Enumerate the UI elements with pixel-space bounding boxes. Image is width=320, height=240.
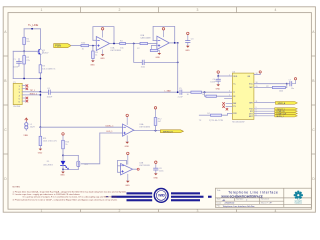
wire main run long xyxy=(51,91,178,93)
svg-text:Sheet ? of ?: Sheet ? of ? xyxy=(261,201,273,204)
node base junction xyxy=(23,50,25,52)
ground R6 xyxy=(158,50,162,55)
wire loop top xyxy=(63,154,78,156)
port PGIN xyxy=(54,44,71,48)
capacitor C1 xyxy=(17,58,22,66)
connector P1 PHONE xyxy=(13,83,22,104)
svg-text:GND: GND xyxy=(90,64,95,66)
wire R7 to IC xyxy=(202,91,233,93)
svg-text:100nF: 100nF xyxy=(210,82,216,84)
svg-text:GND: GND xyxy=(156,57,161,59)
resistor R12 pull-up xyxy=(154,118,157,126)
LED D1 xyxy=(61,161,69,170)
capacitor C6 decoupling xyxy=(217,76,219,79)
wire branch drop xyxy=(205,92,206,96)
svg-text:TIP_1: TIP_1 xyxy=(30,90,36,92)
node main run junction xyxy=(177,91,179,93)
svg-text:4: 4 xyxy=(275,8,277,12)
wire C7 to power xyxy=(292,80,295,84)
wire minus stub U2A xyxy=(153,40,157,42)
wire RING xyxy=(22,94,40,96)
logo bars xyxy=(106,192,212,201)
svg-text:RXI: RXI xyxy=(233,113,236,115)
op-amp U4A xyxy=(123,123,151,136)
wire left rail mid xyxy=(23,45,25,56)
wire stub pin xyxy=(225,98,233,100)
capacitor C5 series xyxy=(180,90,182,94)
ground R11 xyxy=(39,146,43,151)
port DTO xyxy=(275,112,298,114)
svg-text:10k 1/16W 1%: 10k 1/16W 1% xyxy=(42,68,55,70)
svg-text:3: 3 xyxy=(19,92,20,94)
node RING junction xyxy=(40,94,42,96)
svg-text:2/04/2010: 2/04/2010 xyxy=(225,203,236,205)
node cap rail junction xyxy=(177,62,179,64)
ground U4A xyxy=(125,136,129,144)
resistor R13 xyxy=(62,140,65,149)
svg-text:C7: C7 xyxy=(289,80,291,82)
svg-text:GND: GND xyxy=(125,146,130,148)
wire MIC out xyxy=(254,87,273,89)
op-amp U2A xyxy=(157,36,169,49)
port SPK xyxy=(276,102,298,105)
power port C7 xyxy=(294,78,296,80)
wire cap to output rail xyxy=(145,61,178,63)
wire output drop rail xyxy=(177,43,179,92)
svg-text:BC807: BC807 xyxy=(42,52,49,54)
node U2A out junction xyxy=(174,42,176,44)
svg-text:100n: 100n xyxy=(159,171,163,173)
wire R5 to U2A minus xyxy=(148,43,157,45)
resistor R7 xyxy=(191,91,202,93)
svg-text:16: 16 xyxy=(187,94,189,96)
wire feedback U1A xyxy=(93,27,114,44)
node TL_LINE junction xyxy=(31,28,33,30)
svg-text:5: 5 xyxy=(19,98,20,100)
wire U4A out xyxy=(134,130,161,132)
port SPKROUT xyxy=(160,130,183,133)
node plus input junction xyxy=(92,45,94,47)
wire C5 to R7 xyxy=(183,91,191,93)
wire TIP xyxy=(22,91,40,93)
resistor R4 xyxy=(120,42,126,44)
svg-text:Date:: Date: xyxy=(217,201,222,204)
node TIP junction xyxy=(40,91,42,93)
svg-text:SPKROUT: SPKROUT xyxy=(163,131,173,133)
wire loop bottom xyxy=(63,168,78,170)
svg-text:GND: GND xyxy=(38,153,43,155)
svg-text:File:: File: xyxy=(217,206,221,208)
resistor R40 xyxy=(81,45,89,47)
wire emitter rail xyxy=(39,54,41,128)
wire feedback cap branch xyxy=(134,44,142,63)
svg-text:3: 3 xyxy=(197,8,199,12)
svg-text:100k: 100k xyxy=(279,90,283,92)
node VCC junction xyxy=(286,83,288,85)
pin numbers xyxy=(229,73,258,117)
svg-text:1k: 1k xyxy=(65,144,67,146)
svg-text:TL_LINE: TL_LINE xyxy=(28,23,39,27)
svg-text:GND: GND xyxy=(185,50,190,52)
node tie junction xyxy=(23,78,25,80)
svg-text:LM7301IM5: LM7301IM5 xyxy=(110,50,121,52)
company circle logo xyxy=(154,189,168,203)
port MUT xyxy=(275,115,298,117)
svg-text:1k: 1k xyxy=(202,94,204,96)
node VDD junction xyxy=(217,75,219,77)
svg-text:GND: GND xyxy=(60,175,65,177)
wire TXO out xyxy=(254,108,275,110)
svg-text:2: 2 xyxy=(19,89,20,91)
svg-text:3. Phones photo first via 5v i: 3. Phones photo first via 5v is 4w or 10… xyxy=(13,198,118,201)
company gear logo xyxy=(292,189,304,205)
svg-text:hardware: hardware xyxy=(295,202,302,205)
svg-text:1k: 1k xyxy=(95,55,97,57)
resistor R3 pulldown xyxy=(92,46,94,51)
wire to U4A plus xyxy=(40,126,122,128)
svg-text:R?: R? xyxy=(266,86,268,88)
svg-text:PHONE: PHONE xyxy=(13,106,21,108)
wire stub TX pin xyxy=(226,106,232,108)
ground U4B xyxy=(126,174,130,183)
power port GS xyxy=(259,71,261,75)
power port V+ U1A xyxy=(101,28,103,38)
node LED top junction xyxy=(62,155,64,157)
wire U4B out xyxy=(133,168,137,170)
wire left drop xyxy=(12,51,14,78)
wire bottom tie xyxy=(13,78,40,80)
resistor R10 xyxy=(272,86,285,88)
wire DTO out xyxy=(254,113,275,115)
wire left rail lower xyxy=(23,64,25,79)
decoupling cap C3 xyxy=(185,32,194,52)
svg-text:1: 1 xyxy=(41,8,43,12)
svg-text:6: 6 xyxy=(19,102,20,104)
svg-text:3: 3 xyxy=(229,91,230,93)
wire R40 to opamp xyxy=(89,45,97,47)
svg-text:100nF: 100nF xyxy=(47,97,53,99)
wire junction to C7 xyxy=(287,83,290,85)
svg-text:10uH: 10uH xyxy=(30,126,35,128)
decoupling cap C8 xyxy=(153,161,163,180)
svg-text:GND: GND xyxy=(125,185,130,187)
wire U4B minus stub xyxy=(118,165,121,167)
node emitter rail bottom junction xyxy=(40,126,42,128)
svg-text:SPKR_A: SPKR_A xyxy=(278,102,286,105)
op-amp U1A xyxy=(96,37,122,53)
svg-text:2: 2 xyxy=(119,8,121,12)
svg-text:2.2uF: 2.2uF xyxy=(178,97,184,99)
wire RXI run xyxy=(199,114,210,116)
IC pin name texts xyxy=(233,76,253,118)
svg-text:LED_1: LED_1 xyxy=(106,131,113,133)
wire R9 to pin xyxy=(222,113,233,115)
resistor R11 xyxy=(39,136,42,145)
port DTI xyxy=(275,110,298,112)
svg-text:GND: GND xyxy=(153,178,158,180)
no-ERC marker xyxy=(137,168,139,170)
connector pin stubs xyxy=(22,86,26,102)
title block small field labels xyxy=(217,189,273,208)
op-amp U4B xyxy=(121,162,151,175)
svg-text:NOTES:: NOTES: xyxy=(13,186,21,188)
svg-text:LED-RING: LED-RING xyxy=(43,165,53,167)
svg-text:GND: GND xyxy=(100,58,105,60)
svg-text:RING_1: RING_1 xyxy=(30,93,38,95)
resistor R1 xyxy=(23,37,26,44)
wire minus stub xyxy=(93,39,96,41)
ground C6 xyxy=(216,81,220,86)
svg-text:2(??K 40k TXTB: 2(??K 40k TXTB xyxy=(209,120,224,122)
ground U1A xyxy=(101,50,105,56)
capacitor C7 xyxy=(290,82,292,86)
node LED bottom junction xyxy=(62,169,64,171)
power port VDD at IC xyxy=(217,71,219,76)
wire R8 to IC xyxy=(217,95,233,97)
svg-text:MC34014DW: MC34014DW xyxy=(232,121,244,123)
transistor Q1 xyxy=(38,49,50,55)
wire R4 to U2A xyxy=(126,43,141,45)
no-connect X pins 1,2,5,6 xyxy=(26,85,28,103)
resistor R3b on rail xyxy=(39,65,42,73)
port TXO xyxy=(275,108,298,110)
power port LED branch xyxy=(62,133,64,141)
notes text xyxy=(13,186,127,201)
wire minus drop xyxy=(81,133,100,164)
capacitor C2 series xyxy=(142,60,144,64)
varistor VR1 xyxy=(77,161,80,166)
op-amp U4B feedback xyxy=(118,160,127,172)
title block field values xyxy=(223,199,273,208)
node pullup junction xyxy=(155,130,157,132)
resistor R5 xyxy=(140,42,148,44)
wire SPK out xyxy=(254,102,276,104)
svg-text:100nF: 100nF xyxy=(13,67,19,69)
svg-text:PGIN: PGIN xyxy=(55,46,61,48)
wire U2A out xyxy=(169,42,177,44)
svg-text:2: 2 xyxy=(119,209,121,213)
svg-text:1: 1 xyxy=(19,86,20,88)
wire loop right xyxy=(77,155,79,161)
wire VDD to pin1 xyxy=(218,75,232,77)
svg-text:Or a pull up on/use of outputs: Or a pull up on/use of outputs, R is C a… xyxy=(23,195,118,198)
title block xyxy=(215,188,311,207)
node branch junction xyxy=(204,91,206,93)
power port VBB arrow xyxy=(25,118,28,122)
svg-text:100n: 100n xyxy=(141,67,145,69)
svg-text:VBB: VBB xyxy=(23,135,28,137)
wire left rail upper xyxy=(23,29,25,38)
wire base xyxy=(13,50,39,52)
no-connect X IC left pins xyxy=(223,103,228,111)
wire U4A minus xyxy=(100,132,123,134)
svg-text:VWD: VWD xyxy=(158,194,166,198)
svg-text:Revision: Revision xyxy=(261,199,270,201)
svg-text:3: 3 xyxy=(197,209,199,213)
power port V+ U4A xyxy=(126,114,128,124)
inner sheet border xyxy=(8,13,311,210)
node out junction xyxy=(113,43,115,45)
ground LED xyxy=(61,169,65,173)
node filter junction xyxy=(133,43,135,45)
wire VCC out xyxy=(254,83,287,85)
wire feedback U2A xyxy=(153,26,175,42)
svg-text:L_SAB: L_SAB xyxy=(164,89,171,92)
svg-text:1: 1 xyxy=(41,209,43,213)
wire main run left xyxy=(40,91,47,93)
IC U3 MC34014 xyxy=(232,73,254,119)
svg-text:CA3140AM: CA3140AM xyxy=(140,37,151,40)
wire MUT out xyxy=(254,115,275,117)
svg-text:4: 4 xyxy=(275,209,277,213)
resistor R8 xyxy=(206,95,217,97)
wire U1A out xyxy=(110,43,120,45)
svg-text:4: 4 xyxy=(19,95,20,97)
resistor R6 minus bias xyxy=(152,45,157,47)
node rail junction xyxy=(40,78,42,80)
power port V+ U4B xyxy=(127,152,129,164)
svg-text:100Ra_1: 100Ra_1 xyxy=(105,125,114,127)
wire rail to R11 xyxy=(39,127,41,136)
svg-text:GND: GND xyxy=(216,88,221,90)
wire R10 up xyxy=(285,84,286,88)
capacitor C4 series xyxy=(48,90,50,94)
wire PGIN to R40 xyxy=(71,45,81,47)
svg-text:XXXX-SCHEMATIC/INTERFACE: XXXX-SCHEMATIC/INTERFACE xyxy=(221,194,263,198)
svg-text:MUTE_1: MUTE_1 xyxy=(277,116,284,118)
svg-text:10u: 10u xyxy=(291,88,294,90)
svg-text:100k 1/16 0.1%: 100k 1/16 0.1% xyxy=(43,140,57,142)
wire collector rail xyxy=(39,29,41,49)
svg-text:LM7301IM5: LM7301IM5 xyxy=(139,165,150,167)
wire top bus xyxy=(24,28,40,30)
wire R13 to LED xyxy=(62,149,64,161)
inductor L1 xyxy=(25,122,28,131)
wire GS pin to power xyxy=(254,74,260,76)
svg-text:Telephone Line Interface.SchDo: Telephone Line Interface.SchDoc xyxy=(223,205,256,208)
resistor R2 xyxy=(23,56,26,64)
svg-text:V+: V+ xyxy=(233,84,235,86)
wire stub MU pin xyxy=(226,103,232,105)
power port V+ U2A xyxy=(162,28,164,37)
ground R3 xyxy=(91,59,95,63)
svg-text:LM7301IM5: LM7301IM5 xyxy=(139,127,150,129)
power port R12 xyxy=(154,107,156,118)
resistor R9 xyxy=(211,114,222,116)
wire DTI out xyxy=(254,110,275,112)
svg-text:4: 4 xyxy=(229,95,230,97)
